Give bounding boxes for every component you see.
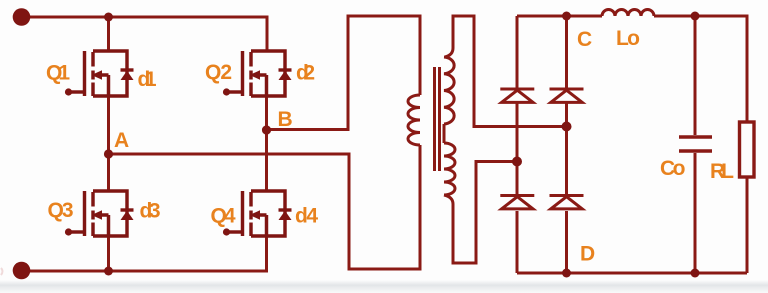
- svg-text:B: B: [278, 108, 293, 131]
- svg-text:Lo: Lo: [616, 27, 640, 50]
- svg-text:Q2: Q2: [205, 61, 232, 84]
- svg-text:d2: d2: [296, 62, 315, 85]
- svg-text:Q4: Q4: [211, 205, 236, 228]
- svg-text:A: A: [114, 129, 129, 152]
- svg-text:C: C: [577, 28, 592, 51]
- svg-text:Q3: Q3: [48, 199, 74, 222]
- svg-text:Q1: Q1: [46, 62, 70, 85]
- svg-text:d4: d4: [295, 205, 318, 228]
- svg-text:d1: d1: [138, 68, 157, 91]
- svg-text:RL: RL: [710, 160, 734, 183]
- svg-text:d3: d3: [140, 200, 161, 223]
- svg-text:D: D: [580, 243, 595, 266]
- svg-text:Co: Co: [660, 157, 686, 180]
